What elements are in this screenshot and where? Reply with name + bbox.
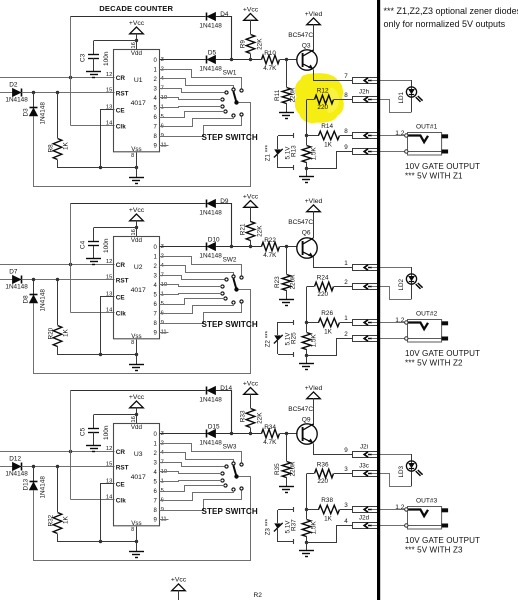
wire output 5 to switch [160,481,222,482]
svg-text:22K: 22K [256,225,263,237]
svg-text:Q6: Q6 [302,230,311,237]
svg-text:R38: R38 [321,497,333,504]
resistor R33 22K [239,409,263,435]
wire clock input to CR pin [0,264,115,266]
svg-text:D10: D10 [208,236,220,243]
resistor R26 1K [307,310,352,335]
junction D4 branch [230,245,233,248]
svg-text:D3: D3 [22,108,29,117]
svg-text:1,2: 1,2 [395,317,404,324]
svg-text:220K: 220K [289,461,296,477]
svg-text:LD2: LD2 [398,278,405,290]
svg-text:+Vcc: +Vcc [243,6,259,13]
resistor R34 4.7K [262,424,298,446]
wire CE pin loop [101,110,115,168]
svg-text:R23: R23 [274,276,281,288]
switch SW3 rotary step switch [221,444,243,492]
svg-text:J2i: J2i [360,444,368,451]
junction CE/ground rail [99,540,102,543]
junction reset/D3 [32,465,35,468]
wire emitter to pin7 jack [314,257,353,268]
svg-text:only for normalized 5V outputs: only for normalized 5V outputs [384,19,506,29]
power +Vcc over R33 [243,380,259,408]
svg-text:R12: R12 [317,88,329,95]
wire output-0 feedback (top) [71,203,206,205]
svg-text:22K: 22K [256,38,263,50]
wire output 0 to R9/R10 [216,433,262,435]
svg-text:1N4148: 1N4148 [199,439,222,446]
wire output 4 to switch [160,472,222,474]
svg-text:4.7K: 4.7K [263,252,277,259]
svg-text:+Vcc: +Vcc [129,20,145,27]
diode D7 1N4148 [5,269,28,291]
junction Vss/ground rail [135,353,138,356]
jack OUT#2 phone jack [395,310,448,342]
wire output 7 to switch [160,491,234,501]
junction reset/D3 [32,91,35,94]
svg-text:R20: R20 [48,327,55,339]
wire reset line to RST pin [22,92,115,94]
svg-text:J2h: J2h [359,89,370,96]
svg-text:J3c: J3c [359,463,369,470]
wire output 2 to switch [160,266,234,275]
wire feedback to output-0 node [216,391,232,434]
svg-text:R24: R24 [317,275,329,282]
connector pin 8 (gate out) [344,128,378,138]
wire clock input to CR pin [0,451,115,453]
svg-text:4.7K: 4.7K [263,439,277,446]
wire output 5 to switch [160,107,222,108]
junction R13 ground node [305,541,308,544]
wire CE pin loop [101,297,115,355]
power +Vled over Q9 [305,385,323,425]
svg-text:D5: D5 [208,49,217,56]
connector pin 3 (LED return) [344,463,378,477]
svg-text:D13: D13 [22,478,29,490]
wire output 8 to switch [160,491,242,511]
wire output 9 stub [160,145,169,147]
svg-text:3: 3 [344,502,348,509]
wire Vss lead [136,153,138,178]
wire Vss lead [136,340,138,365]
junction Vcc/C tap [135,226,138,229]
wire Clk pin [71,312,115,314]
wire jack sleeve to ground node [307,152,353,169]
wire vertical Clk feedback column [70,204,72,313]
wire output 6 to switch [160,112,225,118]
junction clock/Clk tap [69,450,72,453]
ground under cap [86,446,101,452]
svg-text:D15: D15 [208,423,220,430]
svg-text:STEP SWITCH: STEP SWITCH [202,507,258,516]
wire output 1 to switch [160,70,242,89]
resistor R21 22K [239,222,263,248]
svg-text:CR: CR [116,75,126,82]
ground under cap [86,259,101,265]
svg-text:Z1 ***: Z1 *** [264,144,271,161]
svg-text:10V GATE OUTPUT: 10V GATE OUTPUT [405,536,480,545]
svg-text:10V GATE OUTPUT: 10V GATE OUTPUT [405,162,480,171]
resistor R10 4.7K [262,50,298,72]
svg-text:1N4148: 1N4148 [40,102,47,125]
resistor R22 4.7K [262,237,298,259]
power +Vcc over IC [129,394,145,424]
svg-text:+Vcc: +Vcc [243,193,259,200]
svg-text:C5: C5 [80,427,87,436]
diode D5 1N4148 [199,49,222,72]
svg-text:R33: R33 [239,410,246,422]
svg-text:4: 4 [344,518,348,525]
wire R13 to ground [306,356,308,364]
resistor R35 220K [274,434,297,486]
zener diode Z1 5.1V (optional) [264,133,294,170]
wire output 9 stub [160,519,169,521]
diode D12 1N4148 [5,456,28,478]
svg-text:12: 12 [106,259,112,265]
wire LED cathode return [372,474,412,487]
wire output 5 to switch [160,294,222,295]
svg-text:1,2: 1,2 [395,130,404,137]
wire CE pin loop [101,484,115,542]
svg-text:12: 12 [106,446,112,452]
resistor R11 220K [274,60,297,112]
wire Clk pin [71,125,115,127]
resistor R23 220K [274,247,297,300]
svg-text:CR: CR [116,449,126,456]
svg-text:*** 5V WITH Z3: *** 5V WITH Z3 [405,546,463,555]
svg-text:Z3 ***: Z3 *** [264,518,271,535]
svg-text:4017: 4017 [131,287,146,294]
divider bar (board edge) [377,0,380,600]
svg-text:2: 2 [344,279,348,286]
wire R12 down to divider node [306,474,308,510]
ground under IC [129,365,144,371]
svg-text:100n: 100n [103,51,110,66]
power +Vled over Q3 [305,11,323,51]
svg-text:16: 16 [131,416,137,422]
wire Clk pin [71,499,115,501]
wire output 0 to R9/R10 [216,246,262,248]
wire gate out to jack tip [372,322,405,324]
svg-text:D8: D8 [22,295,29,304]
svg-text:+Vcc: +Vcc [129,207,145,214]
wire reset line to RST pin [22,466,115,468]
power +Vled over Q6 [305,198,323,238]
svg-text:1K: 1K [62,141,69,150]
junction R13 ground node [305,354,308,357]
svg-text:*** 5V WITH Z2: *** 5V WITH Z2 [405,359,463,368]
svg-text:J2d: J2d [359,515,370,522]
svg-text:220: 220 [317,478,328,485]
junction Vss/ground rail [135,166,138,169]
wire gate out to jack tip [372,135,405,137]
svg-text:15: 15 [106,275,112,281]
svg-text:1: 1 [344,315,348,322]
wire output 7 to switch [160,304,234,314]
wire output 1 to switch [160,444,242,463]
svg-text:1,5K: 1,5K [310,147,317,161]
wire clock input to CR pin [0,77,115,79]
connector pin 1 (gate out) [344,315,378,325]
svg-text:+Vcc: +Vcc [129,394,145,401]
wire gate gnd to jack sleeve [372,338,405,340]
wire output 4 to switch [160,98,222,100]
svg-text:8: 8 [131,153,134,159]
wire emitter to pin7 jack [314,444,353,455]
transistor Q6 BC547C [288,219,317,258]
svg-text:14: 14 [106,495,113,501]
svg-text:1N4148: 1N4148 [199,209,222,216]
svg-text:U1: U1 [134,77,143,84]
svg-text:CE: CE [116,295,126,302]
svg-text:+Vled: +Vled [305,198,323,205]
wire reset input line [0,92,13,94]
wire output 3 to switch [160,89,225,93]
svg-text:BC547C: BC547C [288,32,313,39]
wire switch common to reset loop [34,477,251,561]
junction R13 ground node [305,167,308,170]
resistor R14 1K [307,123,352,148]
svg-text:1K: 1K [62,515,69,524]
junction reset/R8 [56,465,59,468]
svg-text:BC547C: BC547C [288,406,313,413]
diode D4 1N4148 [199,11,229,29]
wire jack sleeve to ground node [307,526,353,543]
diode D3 1N4148 (vertical) [22,92,46,187]
wire R13 to ground [306,543,308,551]
wire reset input line [0,279,13,281]
svg-text:1,2: 1,2 [395,504,404,511]
label R2 (next section) [254,592,263,599]
svg-text:U2: U2 [134,264,143,271]
svg-text:9: 9 [344,144,348,151]
transistor Q3 BC547C [288,32,317,70]
wire gate gnd to jack sleeve [372,151,405,153]
wire gate gnd to jack sleeve [372,525,405,527]
wire output 0 (pin 3) line [160,246,207,248]
transistor Q9 BC547C [288,406,317,444]
junction reset/R8 [56,91,59,94]
svg-text:1N4148: 1N4148 [199,65,222,72]
svg-text:Q9: Q9 [302,417,311,424]
resistor R20 1K [48,280,70,355]
svg-text:Clk: Clk [116,311,126,318]
junction base/R11 [285,245,288,248]
capacitor C4 100n [80,228,110,259]
wire output 0 to R9/R10 [216,59,262,61]
svg-text:Clk: Clk [116,124,126,131]
svg-text:16: 16 [131,229,137,235]
svg-text:8: 8 [344,92,348,99]
resistor R9 22K [239,35,263,61]
svg-text:1N4148: 1N4148 [199,396,222,403]
ground under cap [86,72,101,78]
svg-text:D7: D7 [9,269,18,276]
resistor R25 1.5K [291,323,318,355]
svg-text:R32: R32 [48,514,55,526]
wire LED cathode return [372,287,412,300]
svg-text:5.1V: 5.1V [285,520,292,534]
diode D10 1N4148 [199,236,222,259]
resistor R24 220 [307,275,352,298]
wire vertical Clk feedback column [70,17,72,126]
svg-text:SW2: SW2 [223,257,237,264]
connector pin 9 (LED supply) [344,444,378,458]
svg-text:1N4148: 1N4148 [40,289,47,312]
ground under R11 [279,113,294,119]
ground under R11 [279,300,294,306]
svg-text:220K: 220K [289,274,296,290]
wire gate out to jack tip [372,509,405,511]
svg-text:4017: 4017 [131,100,146,107]
connector pin 1 (LED supply) [344,260,378,270]
wire R13 to ground [306,169,308,177]
junction clock/Clk tap [69,76,72,79]
svg-text:C4: C4 [80,240,87,249]
capacitor C5 100n [80,415,110,446]
wire output 0 (pin 3) line [160,59,207,61]
power +Vcc (next section, bottom) [171,577,187,600]
wire output 7 to switch [160,117,234,127]
diode D15 1N4148 [199,423,222,446]
wire switch common to reset loop [34,103,251,187]
resistor R37 1.5K [291,510,318,542]
label STEP SWITCH [202,133,258,142]
svg-text:1K: 1K [324,515,333,522]
power +Vcc over R9 [243,6,259,34]
svg-text:Clk: Clk [116,498,126,505]
highlight marker over R12 [295,73,344,123]
junction D4 branch [230,58,233,61]
svg-text:*** 5V WITH Z1: *** 5V WITH Z1 [405,172,463,181]
junction reset/D3 [32,278,35,281]
resistor R8 1K [48,92,70,168]
svg-text:R2: R2 [254,592,263,599]
wire output-0 feedback (top) [71,390,206,392]
junction R9 pull-up [249,245,252,248]
wire Vcc to decoupling cap [94,414,137,416]
wire R12 down to divider node [306,100,308,136]
junction R9 pull-up [249,58,252,61]
connector pin 8 (LED return) [344,89,378,103]
label STEP SWITCH [202,507,258,516]
resistor R13 1.5K [291,136,318,168]
junction reset/R8 [56,278,59,281]
svg-text:1K: 1K [324,328,333,335]
wire emitter to pin7 jack [314,70,353,81]
svg-text:1N4148: 1N4148 [199,252,222,259]
svg-text:R22: R22 [264,237,276,244]
svg-text:R9: R9 [239,40,246,49]
svg-text:+Vled: +Vled [305,11,323,18]
power +Vcc over IC [129,207,145,237]
zener diode Z2 5.1V (optional) [264,320,294,357]
svg-text:1K: 1K [62,328,69,337]
junction CE/ground rail [99,353,102,356]
resistor R32 1K [48,466,70,542]
junction base/R11 [285,58,288,61]
connector pin 7 (LED supply) [344,73,378,83]
connector pin 2 (LED return) [344,279,378,289]
wire Vss lead [136,527,138,552]
note optional zener diodes [384,6,518,29]
svg-text:R35: R35 [274,463,281,475]
svg-text:9: 9 [344,447,348,454]
junction Vcc/C tap [135,39,138,42]
wire ground rail under IC [58,541,137,543]
wire pin to LED anode [372,80,412,82]
ground under R11 [279,487,294,493]
svg-text:OUT#3: OUT#3 [416,497,438,504]
svg-text:2: 2 [344,331,348,338]
wire output 0 (pin 3) line [160,433,207,435]
wire output 2 to switch [160,79,234,88]
svg-text:1N4148: 1N4148 [40,476,47,499]
jack OUT#1 phone jack [395,123,448,155]
junction Vcc/C tap [135,413,138,416]
svg-text:1N4148: 1N4148 [5,97,28,104]
IC U1 4017 decade counter [106,50,167,160]
svg-text:+Vcc: +Vcc [171,577,187,584]
junction clock/Clk tap [69,263,72,266]
svg-text:SW1: SW1 [223,70,237,77]
svg-text:10V GATE OUTPUT: 10V GATE OUTPUT [405,349,480,358]
diode D2 1N4148 [5,82,28,104]
IC U2 4017 decade counter [106,237,167,347]
junction D4 branch [230,432,233,435]
svg-text:RST: RST [116,91,129,98]
svg-text:100n: 100n [103,425,110,440]
svg-text:RST: RST [116,465,129,472]
svg-text:16: 16 [131,42,137,48]
ground under IC [129,178,144,184]
svg-text:BC547C: BC547C [288,219,313,226]
svg-text:Z2 ***: Z2 *** [264,330,271,347]
svg-text:C3: C3 [80,53,87,62]
junction base/R11 [285,432,288,435]
wire output-0 feedback (top) [71,16,206,18]
junction Vss/ground rail [135,540,138,543]
junction R9 pull-up [249,432,252,435]
wire R12 down to divider node [306,287,308,323]
svg-text:OUT#1: OUT#1 [416,123,438,130]
ground under R13 [299,177,314,183]
wire output 8 to switch [160,304,242,324]
wire output 1 to switch [160,257,242,276]
wire reset input line [0,466,13,468]
svg-text:14: 14 [106,121,113,127]
wire pin to LED anode [372,454,412,456]
svg-text:CR: CR [116,262,126,269]
svg-text:1: 1 [344,260,348,267]
svg-text:1N4148: 1N4148 [5,471,28,478]
svg-text:R26: R26 [321,310,333,317]
svg-text:OUT#2: OUT#2 [416,310,438,317]
svg-text:7: 7 [344,73,348,80]
wire output 6 to switch [160,486,225,492]
LED LD3 [398,454,423,486]
connector pin 4 (gate gnd) [344,515,378,529]
switch SW2 rotary step switch [221,257,243,305]
svg-text:Vdd: Vdd [131,237,143,244]
svg-text:8: 8 [131,340,134,346]
wire output 4 to switch [160,285,222,287]
svg-text:R10: R10 [264,50,276,57]
wire ground rail under IC [58,354,137,356]
label gate output note [405,536,480,555]
svg-text:12: 12 [106,72,112,78]
ground under R13 [299,551,314,557]
